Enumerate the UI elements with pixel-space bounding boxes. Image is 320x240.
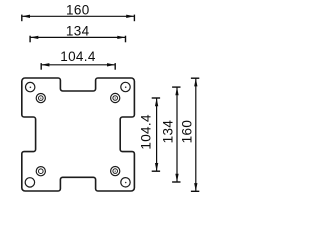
dim 160 right: arrow up xyxy=(194,78,197,86)
dim 104.4 top: arrow right xyxy=(107,63,115,66)
svg-text:134: 134 xyxy=(160,120,175,144)
washer top-left xyxy=(36,94,45,103)
dim 160 right: line and ticks xyxy=(195,78,197,191)
svg-text:160: 160 xyxy=(66,3,90,18)
hole top-left xyxy=(26,82,35,91)
dim 104.4 right: line and ticks xyxy=(156,98,158,171)
hole bottom-right xyxy=(121,178,130,187)
dim 104.4 top: line and ticks xyxy=(41,64,115,66)
svg-text:104.4: 104.4 xyxy=(138,114,153,150)
washer bottom-left xyxy=(36,167,45,176)
dim 134 top: line and ticks xyxy=(30,36,125,38)
dim 104.4 right: arrow down xyxy=(155,163,158,171)
svg-text:160: 160 xyxy=(180,120,195,144)
dim 104.4 top: arrow left xyxy=(41,63,49,66)
washer bottom-right xyxy=(111,167,120,176)
svg-text:134: 134 xyxy=(66,24,90,39)
dim 134 right: line and ticks xyxy=(176,87,178,182)
dim 134 right: arrow down xyxy=(175,174,178,182)
dim 134 top: arrow right xyxy=(117,36,125,39)
dim 160 top: arrow left xyxy=(22,15,30,18)
dim 160 top: arrow right xyxy=(126,15,134,18)
dim 104.4 right: arrow up xyxy=(155,98,158,106)
hole bottom-left xyxy=(25,178,34,187)
plate outline xyxy=(22,78,135,191)
hole top-right xyxy=(121,82,130,91)
dim 160 top: line and ticks xyxy=(22,15,135,17)
dim 160 right: arrow down xyxy=(194,183,197,191)
washer top-right xyxy=(111,93,120,102)
dim 134 right: arrow up xyxy=(175,87,178,95)
dim 134 top: arrow left xyxy=(30,36,38,39)
svg-text:104.4: 104.4 xyxy=(60,49,96,64)
